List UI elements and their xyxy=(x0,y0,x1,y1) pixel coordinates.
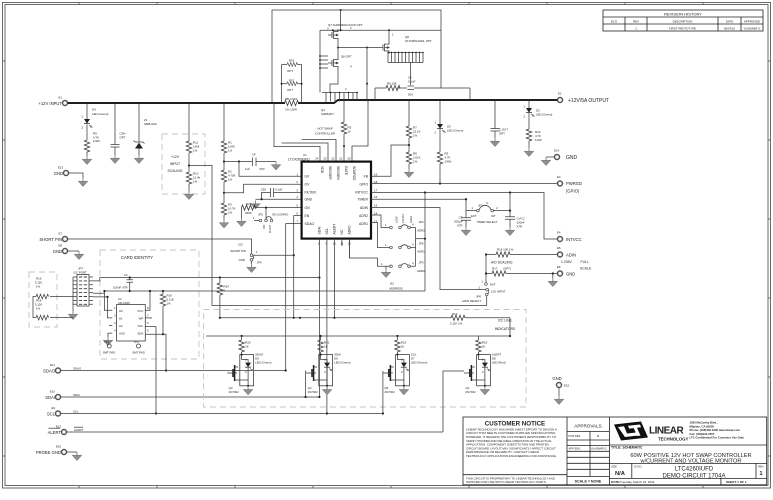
svg-text:2: 2 xyxy=(523,115,525,119)
svg-text:GND: GND xyxy=(305,198,313,202)
svg-text:3: 3 xyxy=(114,321,116,325)
svg-text:17: 17 xyxy=(374,188,378,192)
svg-text:1K: 1K xyxy=(482,345,486,349)
svg-text:6: 6 xyxy=(147,321,149,325)
svg-text:24LC025: 24LC025 xyxy=(118,301,130,305)
svg-text:0.1uF: 0.1uF xyxy=(275,187,283,191)
svg-text:E3: E3 xyxy=(557,175,561,179)
svg-text:ON CONFIG: ON CONFIG xyxy=(272,213,289,217)
svg-text:+12V: +12V xyxy=(171,155,180,159)
svg-text:21: 21 xyxy=(339,157,343,161)
svg-text:REVISION HISTORY: REVISION HISTORY xyxy=(664,12,702,17)
svg-text:INTVCC: INTVCC xyxy=(355,191,368,195)
svg-text:A0: A0 xyxy=(119,309,123,313)
svg-text:20: 20 xyxy=(347,157,351,161)
svg-text:TIMER: TIMER xyxy=(357,198,368,202)
svg-text:1: 1 xyxy=(385,243,387,247)
svg-text:E16: E16 xyxy=(56,445,62,449)
svg-text:JP2: JP2 xyxy=(258,213,263,217)
svg-text:2: 2 xyxy=(401,370,403,374)
svg-text:CF: CF xyxy=(252,153,256,157)
svg-text:LED (Red): LED (Red) xyxy=(492,361,506,365)
svg-text:LTC4260IUFD: LTC4260IUFD xyxy=(288,158,310,162)
svg-text:15: 15 xyxy=(374,204,378,208)
svg-text:A/D SCALING: A/D SCALING xyxy=(491,260,513,264)
svg-text:E1: E1 xyxy=(58,96,62,100)
svg-text:23: 23 xyxy=(323,157,327,161)
svg-text:4: 4 xyxy=(350,65,352,69)
svg-text:1%: 1% xyxy=(36,285,41,289)
svg-text:3: 3 xyxy=(296,188,298,192)
svg-text:GPIO: GPIO xyxy=(360,183,369,187)
svg-text:CONTROLLER: CONTROLLER xyxy=(315,132,335,136)
svg-text:OPT: OPT xyxy=(287,69,293,73)
svg-text:0: 0 xyxy=(224,289,226,293)
svg-text:R13: R13 xyxy=(452,312,458,316)
svg-text:2: 2 xyxy=(114,314,116,318)
svg-text:5: 5 xyxy=(296,204,298,208)
svg-text:GND: GND xyxy=(53,249,62,254)
svg-text:E14: E14 xyxy=(554,149,560,153)
svg-text:SHORT PIN: SHORT PIN xyxy=(230,249,246,253)
svg-text:4: 4 xyxy=(412,261,414,265)
svg-text:DEMO CIRCUIT 1704A: DEMO CIRCUIT 1704A xyxy=(663,473,726,479)
svg-text:LED (Green): LED (Green) xyxy=(411,361,427,365)
svg-text:1/4W: 1/4W xyxy=(445,160,452,164)
svg-text:R6 15K: R6 15K xyxy=(387,82,397,86)
svg-text:SHEET 1 OF 1: SHEET 1 OF 1 xyxy=(726,480,747,484)
svg-text:1: 1 xyxy=(256,250,258,254)
svg-text:ADIN: ADIN xyxy=(566,252,576,257)
svg-text:ADR1: ADR1 xyxy=(417,249,425,253)
svg-text:FLOAT: FLOAT xyxy=(401,214,405,223)
svg-text:1: 1 xyxy=(81,115,83,119)
svg-text:E10: E10 xyxy=(50,390,56,394)
svg-text:E2: E2 xyxy=(558,92,562,96)
svg-text:LINEAR: LINEAR xyxy=(649,426,685,437)
svg-text:TP1: TP1 xyxy=(104,340,110,344)
svg-text:SDAI: SDAI xyxy=(318,227,322,235)
svg-text:7: 7 xyxy=(147,314,149,318)
svg-text:EN: EN xyxy=(305,214,310,218)
svg-text:SDAO: SDAO xyxy=(73,366,82,370)
svg-text:GND: GND xyxy=(566,155,578,161)
svg-text:SIZE: SIZE xyxy=(611,464,617,468)
svg-text:4: 4 xyxy=(114,329,116,333)
svg-text:SMT PAD: SMT PAD xyxy=(132,351,145,355)
svg-text:2: 2 xyxy=(296,180,298,184)
svg-text:8: 8 xyxy=(147,306,149,310)
svg-text:ADR2: ADR2 xyxy=(359,214,368,218)
svg-text:A2: A2 xyxy=(119,324,123,328)
svg-text:1%: 1% xyxy=(167,302,172,306)
svg-text:6: 6 xyxy=(296,212,298,216)
svg-text:E11: E11 xyxy=(50,363,55,367)
svg-text:ADR0: ADR0 xyxy=(417,269,425,273)
svg-text:OPT: OPT xyxy=(287,88,293,92)
svg-text:DESCRIPTION: DESCRIPTION xyxy=(673,19,693,23)
svg-text:VLADIMIR G: VLADIMIR G xyxy=(744,26,761,30)
svg-text:Tuesday, March 15, 2011: Tuesday, March 15, 2011 xyxy=(620,480,655,484)
svg-text:M: M xyxy=(597,434,600,438)
svg-text:1/4W: 1/4W xyxy=(535,138,542,142)
svg-text:ADIN SELECT: ADIN SELECT xyxy=(462,299,481,303)
svg-text:ST1000N4H03, OPT: ST1000N4H03, OPT xyxy=(405,39,432,43)
svg-text:R25: R25 xyxy=(246,202,252,206)
svg-text:LOW: LOW xyxy=(395,216,399,223)
svg-text:19: 19 xyxy=(374,172,378,176)
svg-text:JP3: JP3 xyxy=(419,261,424,265)
svg-text:INTVCC: INTVCC xyxy=(566,237,582,242)
svg-text:1: 1 xyxy=(253,216,255,220)
svg-text:1: 1 xyxy=(471,206,473,210)
svg-text:4: 4 xyxy=(296,195,298,199)
svg-text:X7R: X7R xyxy=(457,224,463,228)
svg-text:1%: 1% xyxy=(413,160,418,164)
svg-text:ADDRESS: ADDRESS xyxy=(389,287,403,291)
svg-text:LED (Green): LED (Green) xyxy=(536,113,552,117)
svg-text:E5: E5 xyxy=(557,246,561,250)
svg-text:INPUT: INPUT xyxy=(170,162,180,166)
svg-text:1K: 1K xyxy=(401,345,405,349)
svg-text:2: 2 xyxy=(434,131,436,135)
svg-text:SCALE: SCALE xyxy=(580,267,592,271)
svg-text:PWRGD: PWRGD xyxy=(566,181,582,186)
svg-text:2: 2 xyxy=(345,87,347,91)
svg-text:SCALING: SCALING xyxy=(168,169,183,173)
svg-text:2N7002: 2N7002 xyxy=(229,390,240,394)
svg-text:SHORT PIN: SHORT PIN xyxy=(39,237,62,242)
svg-text:13: 13 xyxy=(374,220,378,224)
svg-text:CARD IDENTITY: CARD IDENTITY xyxy=(121,255,153,260)
svg-text:C4: C4 xyxy=(124,273,128,277)
svg-text:1: 1 xyxy=(114,306,116,310)
svg-text:100nF X7R: 100nF X7R xyxy=(113,286,128,290)
svg-text:DATE: DATE xyxy=(726,19,734,23)
svg-text:24: 24 xyxy=(315,157,319,161)
svg-text:1: 1 xyxy=(381,262,383,266)
svg-text:SMT PAD: SMT PAD xyxy=(103,351,116,355)
svg-text:PROBE GND: PROBE GND xyxy=(36,450,61,455)
svg-text:ON: ON xyxy=(305,206,311,210)
svg-text:OPT: OPT xyxy=(499,132,505,136)
svg-text:4: 4 xyxy=(412,243,414,247)
svg-text:1K: 1K xyxy=(245,345,249,349)
svg-text:12V INPUT: 12V INPUT xyxy=(491,290,506,294)
svg-text:2N7002: 2N7002 xyxy=(308,390,319,394)
svg-text:R17: R17 xyxy=(492,266,498,270)
svg-text:2: 2 xyxy=(81,126,83,130)
svg-text:Q7 SUM90N03-04CP OPT: Q7 SUM90N03-04CP OPT xyxy=(328,23,363,27)
svg-text:E6: E6 xyxy=(557,265,561,269)
svg-text:1/4W: 1/4W xyxy=(93,139,100,143)
svg-text:SENSEN: SENSEN xyxy=(336,166,340,180)
svg-text:ALERT: ALERT xyxy=(48,430,62,435)
svg-text:X7R: X7R xyxy=(517,225,523,229)
svg-text:EXT: EXT xyxy=(471,214,477,218)
svg-text:JP4: JP4 xyxy=(419,220,424,224)
svg-text:E4: E4 xyxy=(557,231,561,235)
svg-text:REV.: REV. xyxy=(758,464,764,468)
svg-text:R14 10K 1%: R14 10K 1% xyxy=(497,248,514,252)
svg-text:Q6 OPT: Q6 OPT xyxy=(341,55,352,59)
svg-text:I2C LINE: I2C LINE xyxy=(498,319,512,323)
svg-text:06/07/10: 06/07/10 xyxy=(724,26,736,30)
svg-text:UV: UV xyxy=(305,175,310,179)
svg-text:OPT: OPT xyxy=(120,135,126,139)
svg-text:1K: 1K xyxy=(324,345,328,349)
svg-text:300K: 300K xyxy=(245,211,252,215)
svg-text:0.1uF: 0.1uF xyxy=(408,80,416,84)
svg-text:EXT: EXT xyxy=(490,283,496,287)
svg-text:ADR0: ADR0 xyxy=(348,225,352,234)
svg-text:1%: 1% xyxy=(413,134,418,138)
svg-text:INT: INT xyxy=(491,214,496,218)
svg-text:2N7002: 2N7002 xyxy=(384,390,395,394)
svg-text:LED (Green): LED (Green) xyxy=(334,361,350,365)
svg-text:ADR1: ADR1 xyxy=(359,222,368,226)
svg-text:FIRST PROTOTYPE: FIRST PROTOTYPE xyxy=(669,26,696,30)
svg-text:APPROVED: APPROVED xyxy=(744,19,760,23)
svg-text:I2C: I2C xyxy=(239,243,244,247)
svg-text:1.235V: 1.235V xyxy=(561,260,572,264)
svg-text:LED (Green): LED (Green) xyxy=(447,129,463,133)
svg-text:TECHNOLOGY APPLICATIONS ENGINE: TECHNOLOGY APPLICATIONS ENGINEERING FOR … xyxy=(466,454,557,458)
svg-text:DC: DC xyxy=(262,225,266,229)
svg-text:(OPT): (OPT) xyxy=(503,266,511,270)
svg-text:DATE:: DATE: xyxy=(611,480,620,484)
svg-text:JP5: JP5 xyxy=(419,241,424,245)
svg-text:VSS: VSS xyxy=(119,332,125,336)
svg-text:SDAI: SDAI xyxy=(73,393,80,397)
svg-text:1%: 1% xyxy=(193,180,198,184)
svg-text:SDA: SDA xyxy=(137,332,143,336)
svg-text:1%: 1% xyxy=(36,307,41,311)
svg-text:GND: GND xyxy=(239,258,245,262)
svg-text:SMBJ12A: SMBJ12A xyxy=(144,122,157,126)
svg-text:A1: A1 xyxy=(119,317,123,321)
svg-text:LTC4260IUFD: LTC4260IUFD xyxy=(675,467,714,473)
svg-text:GND: GND xyxy=(552,376,561,381)
svg-text:D4: D4 xyxy=(92,108,96,112)
svg-text:2: 2 xyxy=(496,206,498,210)
svg-text:+12V/5A OUTPUT: +12V/5A OUTPUT xyxy=(568,98,609,104)
svg-text:APPROVALS: APPROVALS xyxy=(574,424,602,429)
svg-text:w/CURRENT AND VOLTAGE MONITOR: w/CURRENT AND VOLTAGE MONITOR xyxy=(640,459,742,465)
svg-text:1: 1 xyxy=(523,105,525,109)
svg-text:SUPPLIED FOR USE WITH LINEAR T: SUPPLIED FOR USE WITH LINEAR TECHNOLOGY … xyxy=(466,480,547,484)
svg-text:SDAI: SDAI xyxy=(45,395,55,400)
svg-text:GND: GND xyxy=(566,271,575,276)
svg-text:APP ENG.: APP ENG. xyxy=(569,447,582,451)
svg-text:E7: E7 xyxy=(58,232,62,236)
svg-text:LED (Green): LED (Green) xyxy=(255,361,271,365)
svg-text:2: 2 xyxy=(478,286,480,290)
svg-text:1: 1 xyxy=(759,471,763,477)
svg-text:1: 1 xyxy=(434,121,436,125)
svg-text:1: 1 xyxy=(635,26,637,30)
svg-text:I2C: I2C xyxy=(390,282,395,286)
svg-text:1%: 1% xyxy=(228,149,233,153)
svg-text:ALERT: ALERT xyxy=(333,224,337,235)
svg-text:2N7002: 2N7002 xyxy=(465,390,476,394)
svg-text:SCL: SCL xyxy=(325,228,329,235)
svg-text:SCL: SCL xyxy=(73,409,79,413)
svg-text:LED (Green): LED (Green) xyxy=(92,112,108,116)
svg-text:1: 1 xyxy=(481,280,483,284)
svg-text:RS2: RS2 xyxy=(289,59,295,63)
svg-text:HOT SWAP: HOT SWAP xyxy=(317,127,332,131)
svg-text:TP2: TP2 xyxy=(134,340,140,344)
svg-text:1%: 1% xyxy=(193,149,198,153)
svg-text:1% 1/2W: 1% 1/2W xyxy=(285,108,297,112)
svg-text:VLADIMIR G.: VLADIMIR G. xyxy=(591,447,608,451)
svg-text:E8: E8 xyxy=(58,244,62,248)
svg-text:U1: U1 xyxy=(303,153,307,157)
svg-text:1: 1 xyxy=(385,223,387,227)
svg-text:FULL: FULL xyxy=(581,260,589,264)
svg-text:VDD: VDD xyxy=(320,166,324,174)
svg-text:ADIN: ADIN xyxy=(360,206,369,210)
svg-text:1: 1 xyxy=(392,33,394,37)
svg-text:TIMER SELECT: TIMER SELECT xyxy=(476,220,497,224)
svg-text:SCALE = NONE: SCALE = NONE xyxy=(575,479,602,483)
svg-text:RS1: RS1 xyxy=(289,78,295,82)
svg-text:50V: 50V xyxy=(408,93,413,97)
svg-text:REV: REV xyxy=(633,19,639,23)
svg-text:2: 2 xyxy=(482,370,484,374)
svg-text:E13: E13 xyxy=(58,166,64,170)
svg-text:(GPIO): (GPIO) xyxy=(566,189,580,194)
svg-text:SENSEP: SENSEP xyxy=(328,166,332,180)
svg-text:RB 0.004: RB 0.004 xyxy=(285,97,297,101)
svg-text:FILTER: FILTER xyxy=(305,191,317,195)
svg-text:JP9: JP9 xyxy=(257,261,262,265)
svg-text:7: 7 xyxy=(296,220,298,224)
svg-text:JP6: JP6 xyxy=(476,295,481,299)
svg-text:LTC Confidential-For Customer: LTC Confidential-For Customer Use Only xyxy=(690,436,745,440)
svg-text:5: 5 xyxy=(147,329,149,333)
svg-text:INDICATORS: INDICATORS xyxy=(495,327,516,331)
svg-text:1uF: 1uF xyxy=(245,167,250,171)
svg-text:ALERT: ALERT xyxy=(74,428,83,432)
svg-text:NC: NC xyxy=(340,229,344,234)
svg-text:SDAO: SDAO xyxy=(43,368,56,373)
svg-text:Si4864DY: Si4864DY xyxy=(321,112,334,116)
svg-text:N/A: N/A xyxy=(615,471,626,477)
svg-text:1: 1 xyxy=(296,172,298,176)
svg-text:C55: C55 xyxy=(261,187,267,191)
svg-text:ECO: ECO xyxy=(611,19,618,23)
svg-text:+12V INPUT: +12V INPUT xyxy=(38,101,62,106)
svg-text:TITLE: SCHEMATIC: TITLE: SCHEMATIC xyxy=(611,446,643,450)
svg-text:SCL: SCL xyxy=(47,411,56,416)
svg-text:1%: 1% xyxy=(228,178,233,182)
svg-text:22: 22 xyxy=(331,157,335,161)
svg-text:2: 2 xyxy=(324,370,326,374)
svg-text:16: 16 xyxy=(374,195,378,199)
svg-text:3: 3 xyxy=(486,201,488,205)
svg-text:VCC: VCC xyxy=(137,309,143,313)
svg-text:GND: GND xyxy=(54,171,63,176)
svg-text:X7R: X7R xyxy=(259,167,265,171)
svg-text:HIGH: HIGH xyxy=(409,216,413,223)
svg-text:1%: 1% xyxy=(228,211,233,215)
svg-text:IC NO.: IC NO. xyxy=(634,464,642,468)
svg-text:SCL: SCL xyxy=(138,324,144,328)
svg-text:5.11K 1%: 5.11K 1% xyxy=(450,321,463,325)
svg-text:SDAO: SDAO xyxy=(305,222,315,226)
svg-text:GATE: GATE xyxy=(344,166,348,176)
svg-text:10: 10 xyxy=(348,130,352,134)
svg-text:AUTO: AUTO xyxy=(268,225,272,234)
svg-text:E9: E9 xyxy=(51,406,55,410)
svg-text:JP1: JP1 xyxy=(478,203,483,207)
svg-text:FB: FB xyxy=(364,175,369,179)
svg-text:WP: WP xyxy=(139,317,144,321)
svg-text:TECHNOLOGY: TECHNOLOGY xyxy=(658,436,688,441)
svg-text:PCB DES.: PCB DES. xyxy=(569,434,582,438)
svg-text:E15: E15 xyxy=(564,384,570,388)
svg-text:ADR2: ADR2 xyxy=(417,229,425,233)
svg-text:OV: OV xyxy=(305,183,311,187)
svg-text:SOURCE: SOURCE xyxy=(352,166,356,181)
